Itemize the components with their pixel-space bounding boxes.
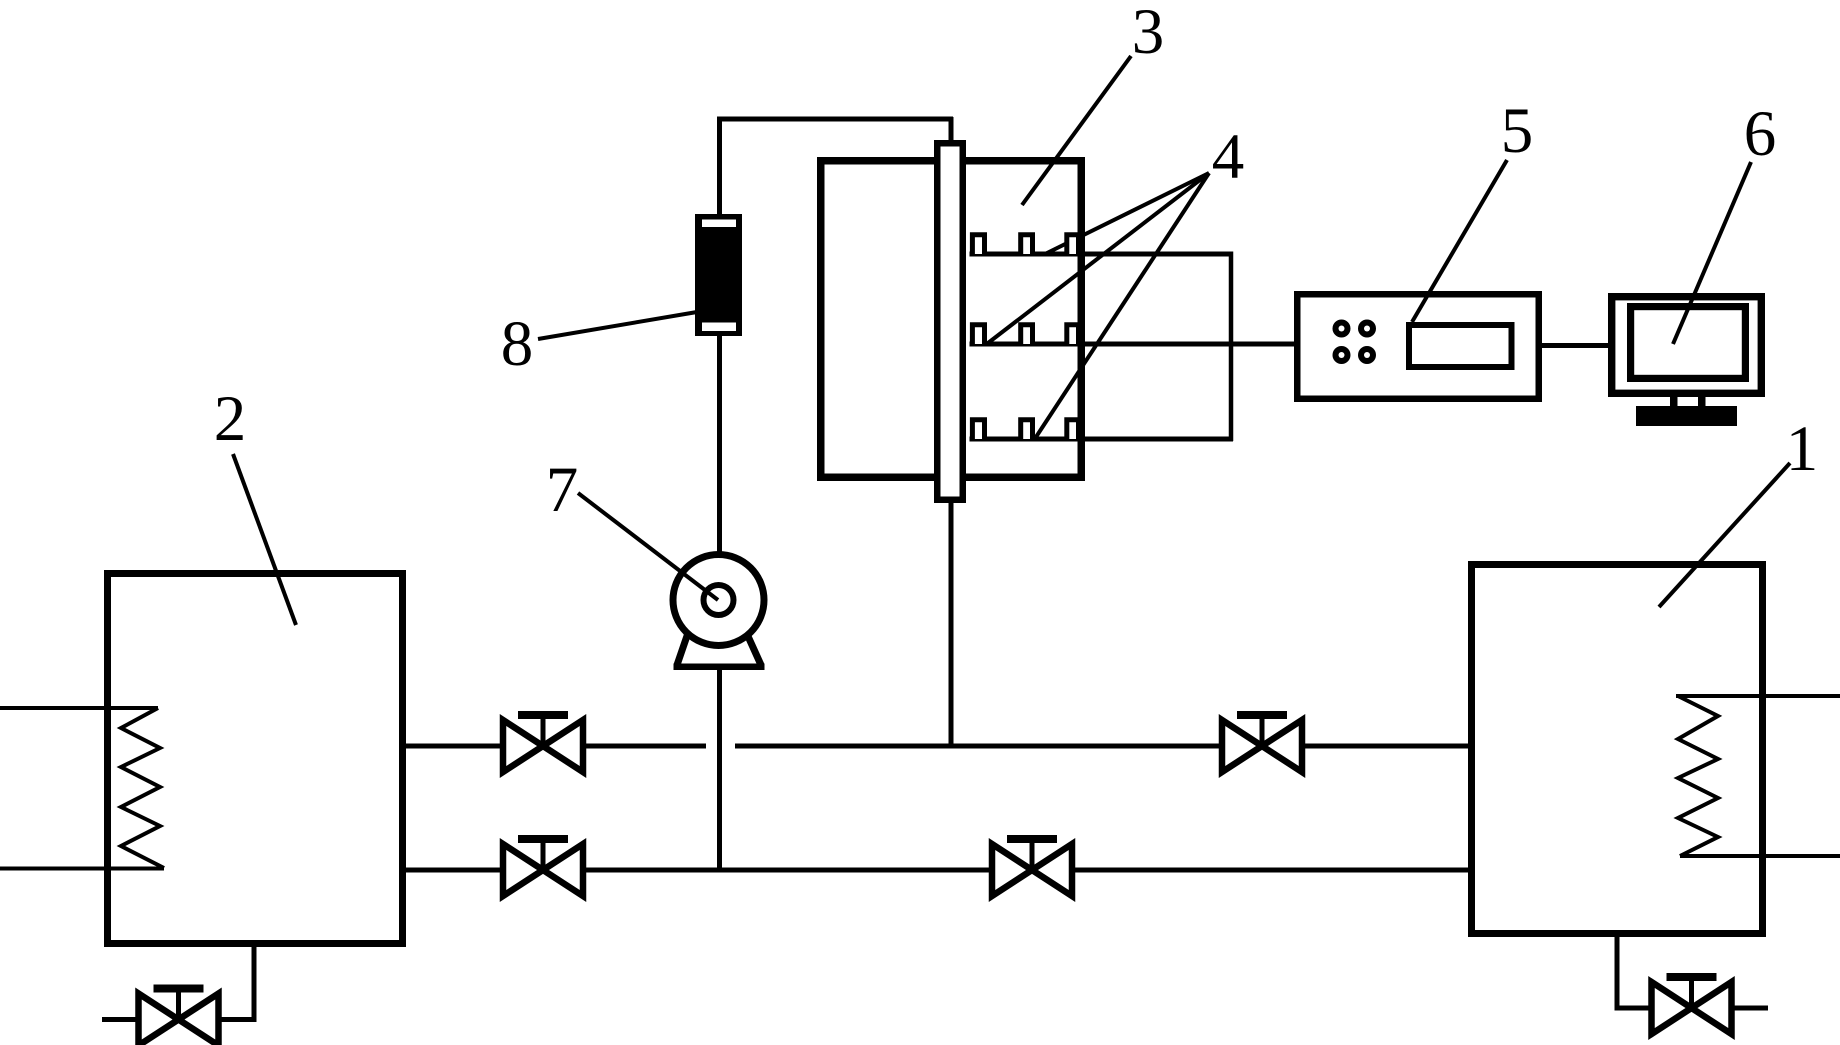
wire pump bottom to lower pipe (717, 668, 722, 870)
leader line 6 (1673, 162, 1751, 344)
pump 7 base bar (674, 664, 765, 671)
upper pipe left segment (tank2 to gap) (404, 744, 706, 749)
thermocouple squares row 3 (972, 420, 1078, 439)
svg-text:1: 1 (1786, 413, 1819, 485)
leader line 8 (538, 312, 697, 339)
svg-text:5: 5 (1501, 95, 1534, 167)
pump 7 outer circle (673, 555, 764, 646)
monitor neck right (1698, 397, 1706, 407)
monitor 6 screen (1631, 307, 1746, 379)
svg-text:6: 6 (1744, 98, 1777, 170)
svg-text:3: 3 (1132, 0, 1165, 68)
upper pipe right segment (gap to tank1) (735, 744, 1471, 749)
flowmeter bottom white band (702, 323, 736, 332)
tank2 drain horizontal (102, 1017, 257, 1022)
valve tank2 drain (139, 985, 219, 1045)
wire vertical above flowmeter (717, 117, 722, 216)
wire logger to monitor (1542, 343, 1610, 348)
tank 1 (right) (1472, 565, 1763, 934)
tank1 heater zigzag (1678, 696, 1718, 856)
tank1 drain horizontal (1615, 1006, 1769, 1011)
pump 7 base left leg (677, 633, 688, 665)
monitor 6 outer (1612, 297, 1762, 394)
tank2 heater zigzag (121, 708, 164, 868)
sensor bus vertical (1229, 252, 1234, 442)
valve upper pipe right (1222, 711, 1302, 772)
leader line 1 (1659, 463, 1790, 607)
sensor row line 1 (970, 252, 1234, 257)
tank1 coil bottom line (1680, 854, 1840, 858)
tank2 coil bottom line (0, 867, 164, 871)
tank2 drain vertical (252, 944, 257, 1020)
flowmeter 8 body (695, 214, 742, 336)
data logger 5 box (1297, 294, 1539, 399)
wire plate bottom to upper pipe (949, 501, 954, 746)
valve lower pipe middle (992, 835, 1072, 896)
flowmeter top white band (702, 220, 736, 228)
test plate through box (937, 143, 963, 500)
valve lower pipe left (503, 835, 583, 896)
thermocouple squares row 2 (972, 325, 1078, 344)
sensor row line 3 (970, 437, 1234, 442)
data logger knobs (1333, 320, 1377, 365)
leader line 5 (1412, 160, 1507, 322)
tank2 coil top line (0, 706, 158, 710)
leader line 3 (1022, 56, 1131, 205)
svg-text:4: 4 (1212, 121, 1245, 193)
leader line 2 (233, 454, 296, 625)
sensor row line 2 (to instrument) (970, 342, 1298, 347)
svg-text:7: 7 (546, 454, 579, 526)
monitor neck left (1670, 397, 1678, 407)
leader line 4c to bottom sensor row (1036, 173, 1209, 437)
svg-text:8: 8 (501, 308, 534, 380)
tank 2 (left) (108, 574, 403, 944)
tank1 drain vertical (1615, 934, 1620, 1008)
data logger display window (1409, 325, 1512, 367)
leader line 7 (578, 493, 718, 600)
wire top loop horizontal from flowmeter to plate (717, 117, 953, 122)
thermocouple squares row 1 (972, 235, 1078, 254)
leader line 4a to top sensor row (1045, 173, 1209, 254)
tank1 coil top line (1676, 694, 1840, 698)
svg-text:2: 2 (214, 383, 247, 455)
pump 7 inner circle (704, 585, 734, 615)
test box 3 (821, 161, 1082, 478)
leader line 4b to middle sensor row (988, 173, 1209, 343)
wire flowmeter bottom to pump top (717, 334, 722, 555)
pump 7 base right leg (747, 634, 761, 665)
valve tank1 drain (1652, 973, 1732, 1034)
valve upper pipe left (503, 711, 583, 772)
wire vertical down to plate top (949, 117, 954, 142)
monitor base (1636, 406, 1737, 426)
lower pipe (404, 868, 1471, 873)
